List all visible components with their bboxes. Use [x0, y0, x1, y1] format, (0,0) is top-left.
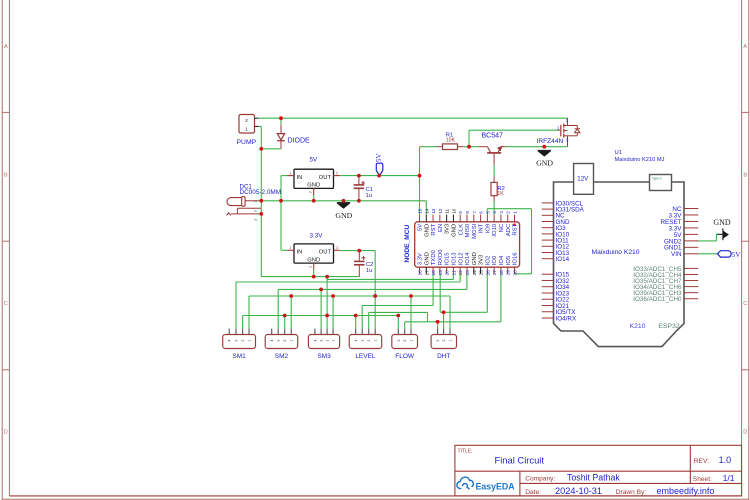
svg-text:Date:: Date: — [525, 489, 541, 496]
svg-text:CLK: CLK — [458, 224, 464, 236]
svg-text:FLOW: FLOW — [395, 353, 415, 360]
svg-text:9: 9 — [458, 211, 463, 214]
svg-text:D: D — [743, 430, 747, 436]
svg-text:GND: GND — [307, 257, 320, 263]
svg-text:IO5: IO5 — [506, 255, 512, 265]
svg-text:3V3: 3V3 — [479, 254, 485, 265]
svg-text:3: 3 — [254, 210, 258, 212]
svg-text:1: 1 — [248, 340, 252, 342]
svg-text:SM2: SM2 — [275, 353, 289, 360]
svg-text:IO36/ADC1_CH0: IO36/ADC1_CH0 — [633, 296, 682, 303]
svg-text:4: 4 — [492, 211, 497, 214]
svg-text:2: 2 — [367, 340, 371, 342]
svg-text:15: 15 — [418, 208, 423, 214]
svg-text:13: 13 — [431, 208, 436, 214]
svg-text:GND: GND — [536, 159, 553, 168]
svg-text:2: 2 — [309, 191, 313, 193]
svg-text:1: 1 — [332, 340, 336, 342]
svg-text:3: 3 — [499, 211, 504, 214]
svg-text:3: 3 — [336, 246, 338, 250]
svg-text:2: 2 — [403, 340, 407, 342]
svg-text:1u: 1u — [366, 193, 372, 199]
svg-text:IO10: IO10 — [492, 223, 498, 236]
svg-text:B: B — [4, 173, 8, 179]
svg-text:11: 11 — [445, 209, 450, 214]
svg-text:MOSI: MOSI — [472, 223, 478, 238]
svg-text:10: 10 — [451, 208, 456, 214]
svg-text:Toshit Pathak: Toshit Pathak — [567, 473, 620, 483]
svg-text:IO12: IO12 — [458, 252, 464, 265]
svg-text:MIS0: MIS0 — [465, 223, 471, 237]
svg-text:B: B — [743, 173, 747, 179]
svg-text:IO14: IO14 — [556, 256, 570, 263]
svg-text:2: 2 — [245, 118, 248, 124]
svg-text:16: 16 — [418, 270, 423, 276]
svg-text:IO4: IO4 — [499, 255, 505, 265]
svg-text:3.3V: 3.3V — [310, 232, 324, 239]
svg-text:27: 27 — [492, 270, 497, 276]
svg-text:2: 2 — [506, 211, 511, 214]
svg-text:IO0: IO0 — [492, 255, 498, 265]
svg-text:24: 24 — [472, 270, 477, 276]
svg-text:IN: IN — [297, 175, 303, 181]
svg-text:1: 1 — [290, 246, 292, 250]
svg-text:GND: GND — [307, 183, 320, 189]
svg-text:BC547: BC547 — [482, 133, 504, 140]
svg-text:OUT: OUT — [319, 250, 332, 256]
svg-text:3: 3 — [397, 340, 401, 342]
svg-text:1: 1 — [290, 171, 292, 175]
svg-text:IO9: IO9 — [485, 224, 491, 234]
svg-text:A: A — [743, 44, 747, 50]
svg-text:23: 23 — [465, 270, 470, 276]
svg-text:IN: IN — [297, 250, 303, 256]
svg-text:3: 3 — [361, 340, 365, 342]
svg-text:1: 1 — [290, 340, 294, 342]
svg-text:RST: RST — [431, 223, 437, 235]
svg-text:RST: RST — [513, 223, 519, 235]
svg-text:PUMP: PUMP — [237, 139, 257, 146]
svg-text:8: 8 — [465, 211, 470, 214]
svg-text:ESP32: ESP32 — [658, 323, 679, 330]
svg-text:17: 17 — [424, 270, 429, 276]
svg-text:1: 1 — [254, 200, 258, 202]
svg-text:IO15: IO15 — [445, 252, 451, 265]
svg-text:3: 3 — [320, 340, 324, 342]
svg-text:4: 4 — [228, 340, 232, 342]
svg-text:5V: 5V — [375, 153, 383, 162]
svg-text:20: 20 — [445, 270, 450, 276]
svg-text:GND: GND — [335, 211, 352, 220]
svg-text:REV:: REV: — [694, 458, 709, 465]
svg-text:5V: 5V — [732, 251, 741, 259]
svg-text:K210: K210 — [630, 323, 646, 330]
svg-text:30: 30 — [513, 270, 518, 276]
svg-text:22: 22 — [458, 270, 463, 276]
svg-text:IO2: IO2 — [485, 256, 491, 266]
svg-text:SM1: SM1 — [232, 353, 246, 360]
svg-text:DHT: DHT — [437, 353, 450, 360]
svg-text:1K: 1K — [497, 191, 504, 197]
svg-text:DIODE: DIODE — [288, 137, 311, 144]
svg-text:12V: 12V — [577, 175, 589, 182]
svg-text:3: 3 — [235, 340, 239, 342]
svg-text:2: 2 — [254, 219, 258, 221]
svg-text:2: 2 — [309, 266, 313, 268]
svg-text:12: 12 — [438, 208, 443, 214]
svg-text:2024-10-31: 2024-10-31 — [555, 486, 602, 496]
svg-text:3.3V: 3.3V — [418, 253, 424, 265]
svg-text:Sheet:: Sheet: — [693, 476, 712, 483]
svg-text:2: 2 — [326, 340, 330, 342]
svg-text:2: 2 — [283, 340, 287, 342]
svg-text:26: 26 — [485, 270, 490, 276]
svg-text:10K: 10K — [446, 138, 456, 144]
svg-text:Drawn By:: Drawn By: — [616, 489, 647, 496]
svg-text:3V3: 3V3 — [445, 223, 451, 234]
svg-text:1: 1 — [410, 340, 414, 342]
svg-text:RXD0: RXD0 — [438, 249, 444, 265]
svg-text:GND: GND — [424, 224, 430, 237]
svg-text:1: 1 — [245, 127, 248, 133]
svg-text:5V: 5V — [310, 157, 319, 164]
svg-text:6: 6 — [479, 211, 484, 214]
svg-text:NODE_MCU: NODE_MCU — [404, 225, 411, 263]
svg-text:NC: NC — [499, 223, 505, 232]
svg-text:VIN: VIN — [671, 251, 682, 258]
svg-text:29: 29 — [506, 270, 511, 276]
svg-text:Final Circuit: Final Circuit — [495, 455, 545, 466]
svg-text:embeedify.info: embeedify.info — [657, 486, 715, 496]
svg-text:Type-C: Type-C — [652, 176, 663, 180]
svg-text:5: 5 — [485, 211, 490, 214]
svg-text:1: 1 — [374, 340, 378, 342]
svg-text:OUT: OUT — [319, 175, 332, 181]
svg-text:3: 3 — [277, 340, 281, 342]
svg-text:TITLE:: TITLE: — [458, 448, 473, 454]
svg-text:ADC: ADC — [506, 223, 512, 236]
svg-text:C: C — [743, 301, 747, 307]
svg-text:25: 25 — [479, 270, 484, 276]
svg-text:SM3: SM3 — [317, 353, 331, 360]
svg-text:5V: 5V — [418, 224, 424, 231]
svg-text:IO13: IO13 — [452, 252, 458, 265]
svg-text:2: 2 — [241, 340, 245, 342]
svg-text:C: C — [4, 301, 8, 307]
svg-text:GND: GND — [713, 218, 731, 227]
svg-text:TXD0: TXD0 — [431, 249, 437, 265]
svg-text:DC005-2.0MM: DC005-2.0MM — [240, 189, 282, 196]
svg-text:18: 18 — [431, 270, 436, 276]
svg-text:4: 4 — [270, 340, 274, 342]
svg-text:4: 4 — [313, 340, 317, 342]
svg-text:19: 19 — [438, 270, 443, 276]
svg-text:D: D — [4, 430, 8, 436]
svg-text:1.0: 1.0 — [719, 455, 732, 465]
svg-text:7: 7 — [472, 211, 477, 214]
svg-text:2: 2 — [336, 171, 338, 175]
svg-text:EasyEDA: EasyEDA — [476, 481, 516, 491]
svg-text:IO4/RX: IO4/RX — [556, 315, 577, 322]
svg-text:GND: GND — [424, 252, 430, 265]
svg-text:21: 21 — [451, 270, 456, 276]
svg-text:Maixduino K210 MJ: Maixduino K210 MJ — [615, 157, 665, 163]
svg-text:INT: INT — [479, 223, 485, 233]
svg-text:1: 1 — [513, 211, 518, 214]
svg-text:IRFZ44N: IRFZ44N — [537, 138, 564, 145]
svg-text:1/1: 1/1 — [723, 473, 735, 483]
svg-text:IO16: IO16 — [513, 252, 519, 265]
svg-text:GND: GND — [472, 252, 478, 265]
svg-text:3: 3 — [436, 340, 440, 342]
svg-text:4: 4 — [354, 340, 358, 342]
svg-text:28: 28 — [499, 270, 504, 276]
svg-text:U1: U1 — [615, 150, 622, 156]
svg-text:Maixduino K210: Maixduino K210 — [592, 249, 640, 256]
svg-text:GND: GND — [452, 224, 458, 237]
svg-text:2: 2 — [442, 340, 446, 342]
svg-text:IO14: IO14 — [465, 252, 471, 265]
svg-text:1: 1 — [449, 340, 453, 342]
svg-text:EN: EN — [438, 224, 444, 232]
svg-text:A: A — [4, 44, 8, 50]
svg-text:Company:: Company: — [525, 475, 555, 482]
svg-text:LEVEL: LEVEL — [355, 353, 376, 360]
svg-text:14: 14 — [424, 208, 429, 214]
svg-text:1u: 1u — [366, 268, 372, 274]
